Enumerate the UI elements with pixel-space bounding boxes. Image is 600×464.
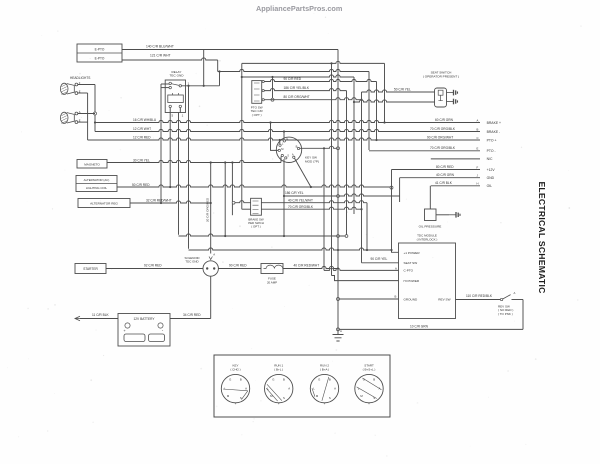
wire stub OIL — [431, 185, 480, 187]
wire brake R1 — [261, 201, 367, 203]
svg-text:MAGNETO: MAGNETO — [84, 162, 100, 166]
svg-text:B: B — [240, 378, 242, 382]
svg-text:90 C/R YEL: 90 C/R YEL — [371, 257, 388, 261]
svg-text:B: B — [477, 127, 479, 131]
connector PTO switch — [252, 81, 262, 104]
wire Wc bus — [242, 61, 385, 63]
wire V210 solenoid bus — [210, 163, 212, 254]
switch REV SW — [500, 298, 502, 300]
svg-text:A: A — [514, 291, 516, 295]
gauge RUN 2 — [310, 364, 338, 406]
wire V324 bus — [323, 148, 325, 270]
svg-text:( B+A ): ( B+A ) — [320, 367, 329, 371]
svg-text:( OPT ): ( OPT ) — [251, 225, 260, 229]
wire V361 bus — [361, 92, 363, 263]
wire starter wire — [106, 268, 203, 270]
wire V170 coil drop — [169, 113, 171, 188]
switch position chart box — [214, 355, 390, 417]
wire stub N/C — [431, 158, 480, 160]
svg-text:50 C/R RED: 50 C/R RED — [132, 183, 150, 187]
wire tap key M — [269, 121, 271, 123]
wire V354 bus — [353, 77, 355, 214]
wire V429 oil drop — [429, 186, 431, 209]
svg-text:11 C/R BLK: 11 C/R BLK — [92, 313, 109, 317]
connector E-PTO box — [77, 44, 122, 62]
wire V178 coil drop — [178, 113, 180, 235]
wire H77 bus — [243, 75, 354, 77]
relay input wires — [161, 83, 169, 85]
connector arrow seat 2 — [447, 99, 458, 105]
svg-text:A: A — [245, 387, 247, 391]
connector arrow seat 1 — [447, 90, 458, 96]
wire V225 bus — [224, 163, 226, 237]
svg-text:A: A — [340, 329, 342, 333]
svg-text:S: S — [329, 396, 331, 400]
svg-text:GND: GND — [487, 176, 495, 180]
svg-text:12V BATTERY: 12V BATTERY — [134, 317, 156, 321]
svg-text:BRAKE +: BRAKE + — [487, 121, 501, 125]
svg-text:40 C/R GRN: 40 C/R GRN — [436, 173, 455, 177]
magneto M1 — [77, 160, 107, 169]
wire P1 — [264, 79, 376, 81]
wire brake L1 — [235, 201, 251, 203]
svg-text:G: G — [318, 378, 320, 382]
wire key B to bus — [300, 146, 338, 148]
svg-text:A: A — [213, 252, 215, 256]
svg-text:PTO +: PTO + — [487, 138, 497, 142]
svg-text:ALTERNATOR REG: ALTERNATOR REG — [90, 202, 118, 206]
svg-text:( B+L ): ( B+L ) — [274, 367, 283, 371]
wire W2 corner drop — [217, 60, 219, 72]
wire V391 bus — [391, 170, 393, 253]
lamp headlight 1 — [60, 83, 77, 94]
wire V384 drop — [384, 63, 386, 122]
svg-text:G: G — [286, 137, 288, 141]
wire P3 — [264, 98, 361, 100]
wire rev sw wire — [456, 299, 501, 301]
wire key A diagonal — [295, 158, 311, 187]
svg-text:C-PTO: C-PTO — [404, 269, 414, 273]
wire W1 E-PTO top — [122, 49, 338, 51]
wire row BRAKE- — [95, 129, 480, 131]
svg-text:41 C/R BLK: 41 C/R BLK — [435, 181, 453, 185]
svg-text:( OPT ): ( OPT ) — [252, 113, 262, 117]
wire row PTO+ — [88, 138, 480, 140]
gauge RUN 1 — [265, 364, 293, 406]
gauge KEY — [221, 364, 249, 406]
wire H236 bus — [179, 234, 347, 236]
wire V161 — [160, 84, 162, 203]
svg-text:80 C/R RED: 80 C/R RED — [436, 165, 454, 169]
svg-text:B: B — [283, 378, 285, 382]
wire V338 main bus — [337, 50, 339, 335]
svg-text:B: B — [296, 145, 298, 149]
svg-text:A: A — [288, 387, 290, 391]
svg-text:34 C/R RED: 34 C/R RED — [183, 313, 201, 317]
alternator box — [76, 176, 117, 192]
wire H203 alt reg — [130, 201, 211, 203]
svg-text:32 C/R RED/WHT: 32 C/R RED/WHT — [146, 199, 172, 203]
wire V523 drop — [522, 300, 524, 330]
wire bulb1 bottom — [78, 92, 88, 94]
svg-text:40 C/R YEL/WHT: 40 C/R YEL/WHT — [288, 199, 313, 203]
svg-text:( OPERATOR PRESENT ): ( OPERATOR PRESENT ) — [423, 75, 459, 79]
svg-text:12 C/R WHT: 12 C/R WHT — [133, 127, 151, 131]
wire C-PTO feed — [324, 268, 399, 270]
svg-text:30 C/R YEL: 30 C/R YEL — [133, 158, 150, 162]
svg-text:( CHG ): ( CHG ) — [230, 367, 240, 371]
wire row BRAKE+ — [95, 120, 480, 122]
wire V331 bus — [331, 63, 333, 275]
svg-text:70 C/R ORG/BLK: 70 C/R ORG/BLK — [430, 146, 456, 150]
svg-text:E-PTO: E-PTO — [95, 56, 105, 60]
svg-text:PTO -: PTO - — [487, 149, 496, 153]
key switch KEY SW — [276, 137, 301, 162]
svg-text:10 C/R GRN: 10 C/R GRN — [410, 324, 429, 328]
svg-text:A: A — [477, 118, 479, 122]
oil pressure switch — [425, 209, 437, 221]
svg-text:C: C — [477, 136, 479, 140]
svg-text:B: B — [395, 295, 397, 299]
svg-text:AppliancePartsPros.com: AppliancePartsPros.com — [256, 4, 343, 13]
wire battery pos wire — [170, 318, 211, 320]
wire W2 E-PTO bottom — [122, 58, 218, 60]
svg-text:TEC GND: TEC GND — [170, 74, 185, 78]
svg-text:SEAT SW: SEAT SW — [404, 261, 418, 265]
svg-text:92 C/R RED: 92 C/R RED — [144, 264, 162, 268]
wire battery neg wire — [80, 318, 118, 320]
wire stub PTO- — [369, 150, 480, 152]
svg-text:HEADLIGHTS: HEADLIGHTS — [70, 76, 90, 80]
wire H196 bus — [284, 194, 400, 196]
svg-text:+: + — [368, 402, 370, 406]
ground symbol — [333, 335, 344, 342]
starter box — [75, 264, 106, 274]
wire V376 bus — [376, 82, 378, 141]
wire V284 key S — [283, 159, 285, 236]
lamp headlight 2 — [60, 112, 77, 123]
svg-text:G: G — [229, 378, 231, 382]
wire V346 bus — [346, 91, 348, 236]
svg-text:+: + — [324, 402, 326, 406]
wire S2 seat — [354, 100, 435, 102]
svg-text:H: H — [477, 182, 479, 186]
svg-text:+1 POWER: +1 POWER — [404, 251, 421, 255]
brake switch — [251, 198, 262, 215]
svg-text:16 C/R WH/BLU: 16 C/R WH/BLU — [133, 118, 157, 122]
svg-text:( TO PNK ): ( TO PNK ) — [498, 312, 513, 316]
svg-text:+: + — [235, 402, 237, 406]
svg-text:12 C/R RED: 12 C/R RED — [133, 136, 151, 140]
wire relay pin1 out — [182, 85, 220, 87]
wire tap key G — [283, 130, 285, 132]
switch seat — [435, 88, 447, 107]
battery 12V — [118, 314, 170, 347]
svg-text:ALTERNATOR (AC): ALTERNATOR (AC) — [84, 178, 110, 182]
wire bulb2 top — [78, 113, 95, 115]
svg-text:+12V: +12V — [487, 168, 496, 172]
chassis arrow — [75, 316, 80, 320]
fuse F1 20AMP — [261, 264, 283, 274]
wire V203 drop — [203, 50, 205, 86]
svg-text:186 C/R YEL/BLK: 186 C/R YEL/BLK — [284, 86, 310, 90]
wire tap G — [283, 132, 285, 140]
wire V369 bus — [368, 72, 370, 151]
svg-text:OIL: OIL — [487, 184, 493, 188]
wire H187 alternator — [117, 185, 392, 187]
alternator regulator box — [78, 199, 130, 208]
svg-text:+: + — [278, 402, 280, 406]
wire fuse to bus — [283, 266, 338, 268]
wire stub +12V — [392, 169, 481, 171]
svg-text:70 C/R ORG/BLK: 70 C/R ORG/BLK — [430, 127, 456, 131]
svg-text:A: A — [334, 387, 336, 391]
svg-text:G: G — [272, 378, 274, 382]
svg-text:HI POWER: HI POWER — [404, 279, 420, 283]
wire H71 bus — [218, 69, 369, 71]
svg-text:E-PTO: E-PTO — [95, 47, 105, 51]
wire V95 — [94, 85, 96, 132]
svg-text:40 C/R RED/WHT: 40 C/R RED/WHT — [294, 264, 320, 268]
svg-text:20 AMP: 20 AMP — [267, 280, 277, 284]
svg-text:60 C/R GRN: 60 C/R GRN — [435, 118, 454, 122]
svg-text:E: E — [477, 147, 479, 151]
svg-text:90 C/R ORG/WHT: 90 C/R ORG/WHT — [427, 135, 453, 139]
wire V272 drop — [272, 77, 274, 100]
svg-text:121 C/R WHT: 121 C/R WHT — [150, 54, 171, 58]
wire HI POWER feed — [332, 276, 399, 281]
connector arrow oil — [449, 212, 460, 218]
svg-text:OIL PRESSURE: OIL PRESSURE — [419, 225, 442, 229]
svg-text:80 C/R ORG/WHT: 80 C/R ORG/WHT — [284, 95, 310, 99]
wire H162 magneto — [107, 160, 281, 162]
wire V232 bus — [231, 163, 233, 216]
svg-text:REV SW: REV SW — [438, 297, 450, 301]
wire V188 relay feed — [188, 86, 190, 249]
wire tap key L — [279, 139, 281, 141]
wire tap L — [279, 140, 281, 145]
wire H250 bus — [189, 248, 392, 250]
svg-text:GROUND: GROUND — [404, 297, 419, 301]
wire tap M — [271, 123, 279, 151]
wire brake R2 — [261, 207, 361, 209]
svg-text:( B+S+L ): ( B+S+L ) — [363, 367, 376, 371]
wire V367 drop — [366, 203, 368, 250]
wire V281 key bl — [280, 157, 282, 163]
svg-text:S: S — [283, 396, 285, 400]
svg-text:TDC GND: TDC GND — [185, 260, 198, 264]
svg-text:50 C/R YEL: 50 C/R YEL — [394, 88, 411, 92]
svg-text:B: B — [329, 378, 331, 382]
wire V241 bus — [241, 63, 243, 209]
svg-text:110 C/R RED/BLK: 110 C/R RED/BLK — [466, 294, 493, 298]
wire +1 power feed — [392, 250, 399, 252]
svg-text:MOD (7P): MOD (7P) — [305, 159, 319, 163]
svg-text:( INTERLOCK ): ( INTERLOCK ) — [417, 237, 438, 241]
svg-text:140 C/R BLU/WHT: 140 C/R BLU/WHT — [146, 45, 174, 49]
svg-text:A: A — [395, 266, 397, 270]
svg-text:M: M — [281, 147, 283, 151]
svg-text:BRAKE -: BRAKE - — [487, 130, 501, 134]
wire riser to H71 — [219, 72, 221, 86]
wire solenoid to fuse — [218, 268, 261, 270]
wire V399 bus — [399, 178, 401, 202]
svg-text:90 C/R RED: 90 C/R RED — [229, 264, 247, 268]
svg-text:ELECTRICAL SCHEMATIC: ELECTRICAL SCHEMATIC — [537, 181, 547, 293]
svg-text:LIGHTING COIL: LIGHTING COIL — [86, 186, 108, 190]
wire V87 — [87, 93, 89, 140]
wire bulb1 top — [78, 84, 95, 86]
svg-text:STARTER: STARTER — [83, 267, 98, 271]
wire S1 seat — [362, 90, 435, 92]
wire P2 — [264, 88, 346, 90]
svg-text:N/C: N/C — [487, 157, 493, 161]
svg-text:90 C/R RED: 90 C/R RED — [284, 77, 302, 81]
svg-text:186 C/R YEL: 186 C/R YEL — [285, 191, 304, 195]
svg-text:A: A — [292, 152, 294, 156]
svg-text:S: S — [287, 154, 289, 158]
wire H329 bottom bus — [338, 328, 523, 330]
svg-text:F: F — [477, 165, 479, 169]
wire brake L2 stub — [242, 208, 251, 210]
wire solenoid to battery — [210, 276, 212, 318]
scan speckles — [195, 73, 196, 74]
gauge START — [355, 364, 383, 406]
svg-text:B: B — [373, 378, 375, 382]
svg-text:20 C/R ORG/RED: 20 C/R ORG/RED — [206, 197, 210, 222]
svg-text:70 C/R ORG/BLK: 70 C/R ORG/BLK — [288, 205, 314, 209]
wire stub GND — [400, 177, 480, 179]
wire bulb2 bottom — [78, 121, 88, 123]
